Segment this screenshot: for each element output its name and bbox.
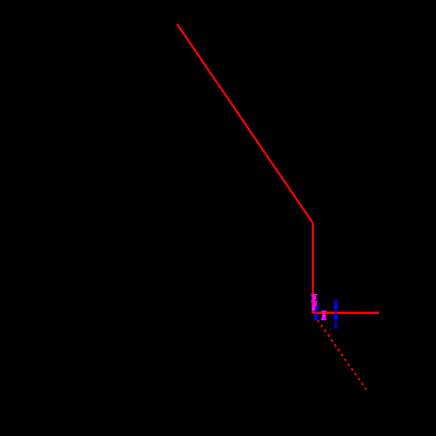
blue data point B1 (small square) [316, 306, 319, 311]
blue data point B4 (lower circle at x=336) [333, 313, 338, 327]
solid model line (diagonal segment) [177, 24, 313, 223]
blue data point B3 (upper circle at x=336) [333, 301, 338, 313]
solid model line (vertical drop) [312, 223, 314, 314]
magenta data point M1 error bar [311, 295, 317, 302]
magenta data point M2 error bar [312, 302, 318, 307]
magenta data point M4 error bar [321, 311, 327, 319]
blue data point B2 (circle with lower error bar) [314, 313, 319, 319]
magenta data point M3 error bar [312, 307, 316, 312]
solid model line (horizontal plateau) [313, 312, 379, 314]
dashed model line [314, 315, 366, 390]
